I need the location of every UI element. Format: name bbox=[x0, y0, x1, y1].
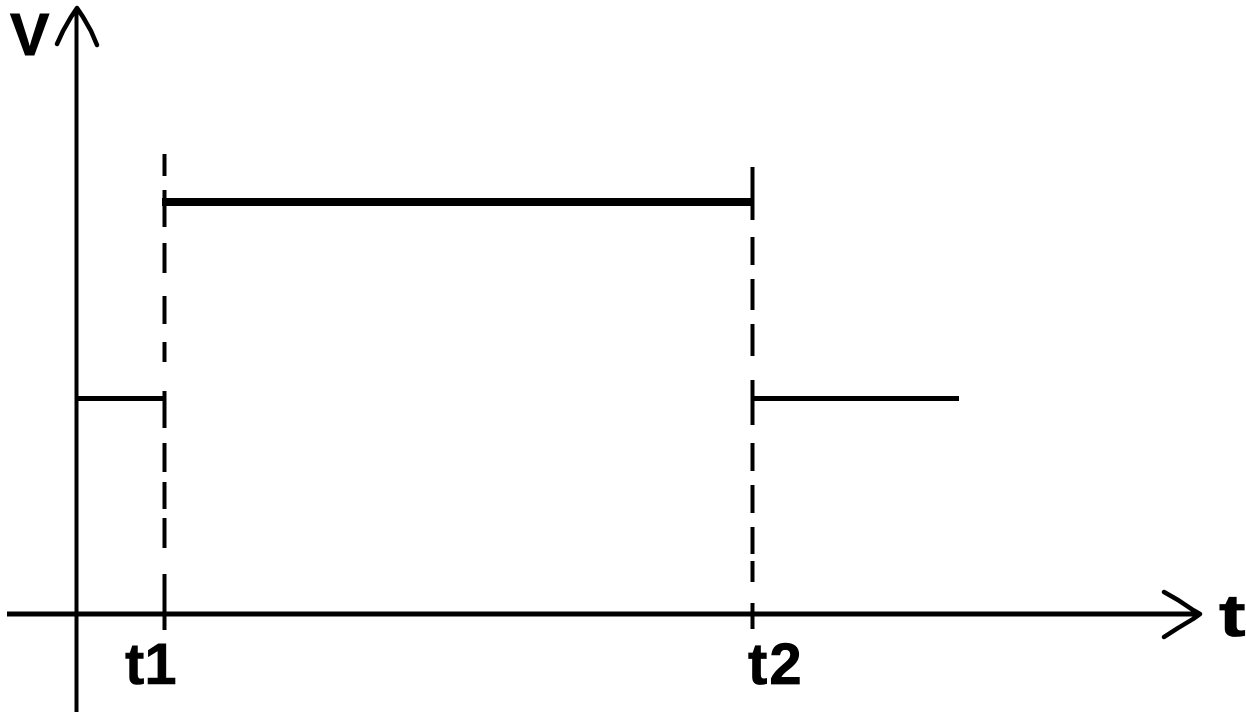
x-axis (t axis horizontal line) bbox=[7, 612, 1200, 617]
svg-text:t1: t1 bbox=[125, 632, 177, 697]
dashed vertical line at t2 bbox=[751, 167, 755, 582]
high-level waveform segment from t1 to t2 bbox=[162, 198, 753, 206]
x-axis arrowhead bbox=[1164, 592, 1200, 637]
dashed vertical line at t1 bbox=[163, 154, 167, 548]
low-level waveform segment after t2 bbox=[753, 396, 959, 401]
y-axis arrowhead bbox=[57, 8, 97, 45]
t1 tick crossing the x-axis bbox=[163, 574, 167, 630]
svg-text:t2: t2 bbox=[748, 632, 804, 697]
svg-text:t: t bbox=[1219, 583, 1246, 649]
y-axis (V axis vertical line) bbox=[75, 9, 79, 712]
svg-text:V: V bbox=[10, 2, 49, 68]
low-level waveform segment before t1 bbox=[77, 396, 165, 401]
t2 tick crossing the x-axis bbox=[751, 603, 755, 629]
